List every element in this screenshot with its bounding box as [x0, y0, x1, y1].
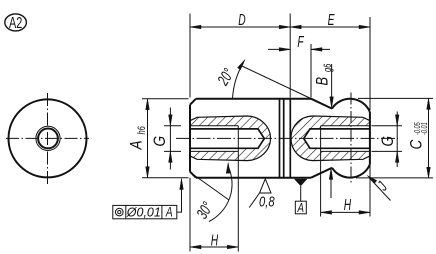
svg-text:h6: h6: [134, 126, 147, 135]
30 degree arc: [209, 166, 232, 222]
svg-text:A: A: [297, 202, 305, 216]
svg-text:G: G: [379, 136, 398, 147]
svg-text:-0.05: -0.05: [414, 122, 422, 135]
svg-text:A: A: [165, 204, 173, 220]
taper edges (neck): [311, 99, 332, 178]
dimension C with tolerance: [356, 98, 433, 178]
dimension E: [290, 17, 370, 110]
svg-text:A2: A2: [9, 14, 22, 32]
front view outer circle (dia A): [9, 99, 87, 177]
svg-text:-0.01: -0.01: [421, 122, 429, 135]
left thread major lines: [190, 126, 238, 152]
internal face line 2: [283, 99, 285, 178]
dimension G (right): [372, 112, 403, 168]
balloon A2: [5, 14, 27, 32]
body silhouette: top edge, chamfers, left face, bottom edge: [190, 99, 311, 178]
front view hole minor circle: [38, 129, 58, 149]
dimension G (left): [164, 108, 181, 170]
svg-text:Ø0,01: Ø0,01: [126, 206, 161, 220]
ball dome top arc: [332, 99, 370, 112]
dimension H (right, thread depth): [321, 164, 370, 216]
ball vertical center line: [350, 93, 352, 185]
right thread end line + H extension: [320, 126, 322, 217]
section view main axis center line: [176, 137, 398, 139]
dimension H (left, thread depth): [190, 178, 238, 252]
left thread end line + H extension: [237, 126, 239, 252]
dimension D: [190, 14, 290, 98]
30 degree chamfer extension line: [191, 173, 230, 201]
svg-text:C: C: [407, 139, 426, 150]
label B g6 with leader arrows: [314, 63, 333, 198]
20 degree arc: [233, 63, 244, 99]
svg-text:A: A: [127, 140, 146, 150]
right thread major lines: [321, 126, 370, 152]
pin left face: [289, 99, 291, 178]
svg-text:F: F: [297, 33, 304, 51]
right hole minor lines + drill point: [304, 129, 370, 148]
svg-text:0,8: 0,8: [259, 193, 275, 210]
front view center lines: [6, 93, 89, 184]
20 degree construction line: [242, 66, 332, 109]
ball right face: [369, 112, 371, 164]
svg-text:G: G: [151, 136, 170, 147]
concentricity tolerance frame: [113, 179, 184, 220]
left section boundary outline: [190, 116, 271, 161]
ball dome bottom arc: [332, 164, 370, 177]
svg-text:H: H: [211, 231, 219, 249]
left body hatched local section: [190, 116, 271, 161]
datum A symbol: [294, 179, 307, 215]
front view thread major circle: [36, 126, 60, 150]
internal face line 1 (block right face): [279, 99, 281, 178]
dimension A h6 (left of section): [142, 99, 189, 178]
left hole minor lines + drill point: [190, 129, 264, 148]
surface finish symbol 0,8: [249, 179, 275, 210]
right body hatched local section: [291, 116, 370, 161]
svg-text:B: B: [314, 77, 332, 86]
dimension F: [268, 44, 330, 98]
right section boundary outline: [291, 116, 370, 161]
label J with leader: [367, 176, 391, 201]
svg-text:E: E: [328, 11, 336, 29]
svg-text:D: D: [238, 11, 246, 29]
svg-text:H: H: [344, 196, 352, 214]
